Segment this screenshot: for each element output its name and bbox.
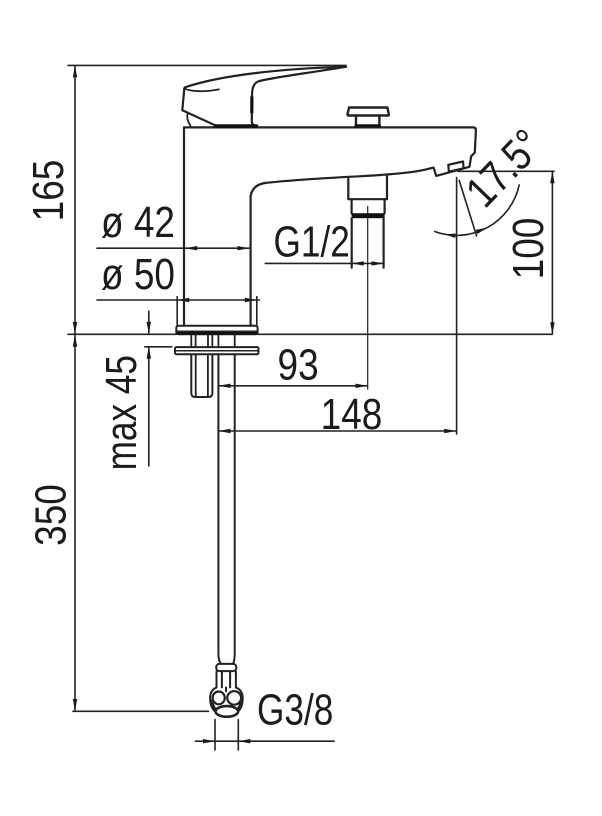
- svg-text:165: 165: [23, 160, 73, 222]
- washer mid line: [175, 350, 259, 352]
- flange bottom band: [177, 332, 257, 334]
- arrow up max45: [147, 347, 151, 359]
- handle base thick line: [216, 124, 257, 128]
- angle slanted ray 17.5: [459, 181, 476, 237]
- arc arrow left: [444, 233, 455, 237]
- arrow right 50: [245, 298, 257, 302]
- svg-text:148: 148: [321, 389, 383, 439]
- nut right lobe: [227, 691, 241, 705]
- arrow left G1/2: [352, 261, 364, 265]
- extension line bottom (hose end level): [73, 710, 209, 712]
- extension line outlet centre down to 93: [367, 207, 369, 390]
- flange outline: [176, 326, 257, 334]
- arc arrow right: [476, 228, 487, 234]
- dimension G1/2 leader line: [265, 262, 383, 264]
- aerator inner outlet: [448, 162, 463, 172]
- handle lever: [184, 67, 346, 126]
- angle vertical ray: [456, 178, 458, 435]
- threaded shank lines: [191, 335, 212, 347]
- dimension G3/8 line: [196, 740, 335, 742]
- arrow down 100: [550, 322, 554, 334]
- svg-text:ø 50: ø 50: [101, 249, 175, 299]
- washer plate: [175, 347, 259, 354]
- arrow left 93: [219, 384, 231, 388]
- arrow right 42: [237, 246, 249, 250]
- nut side wedge right: [239, 701, 242, 709]
- extension tick washer top: [145, 346, 172, 348]
- nut side wedge left: [211, 701, 215, 709]
- svg-text:350: 350: [25, 484, 75, 546]
- stud spline lines: [196, 354, 208, 396]
- hose collar: [216, 664, 236, 671]
- faucet body outline: [184, 127, 476, 325]
- arrow up 350: [73, 335, 77, 347]
- svg-text:G3/8: G3/8: [257, 686, 333, 735]
- mounting stud: [191, 354, 212, 397]
- dimension 50 leader line: [97, 299, 260, 301]
- arrow right G1/2: [372, 261, 384, 265]
- extension line deck left: [68, 333, 176, 335]
- dimension 148 line: [219, 430, 457, 432]
- arrow right 148: [444, 429, 456, 433]
- dimension max45 lower line: [148, 348, 150, 466]
- extension line deck right: [258, 333, 553, 335]
- flange mid line: [176, 330, 257, 332]
- shower outlet black band: [352, 213, 385, 218]
- handle front face: [182, 89, 216, 126]
- arrow left 148: [219, 429, 231, 433]
- dimension 42 leader line: [97, 247, 250, 249]
- arrow up 165: [73, 65, 77, 77]
- arrow right 93: [356, 384, 368, 388]
- nut opening ring: [216, 706, 239, 717]
- arrow right-pointing G3/8 left: [203, 739, 215, 743]
- svg-text:ø 42: ø 42: [101, 197, 175, 247]
- hose tube: [218, 354, 234, 663]
- nut connector line: [225, 688, 227, 692]
- diverter knob base band: [356, 124, 379, 127]
- svg-text:17.5°: 17.5°: [456, 119, 552, 216]
- dimension 350 line: [74, 336, 76, 711]
- nut left lobe: [213, 692, 225, 705]
- svg-text:G1/2: G1/2: [274, 218, 350, 267]
- shower outlet narrow block: [352, 199, 385, 213]
- svg-text:93: 93: [278, 339, 319, 389]
- hose crimp section: [217, 671, 236, 687]
- diverter knob neck: [356, 116, 379, 126]
- dimension 165 line: [74, 67, 76, 334]
- nut silhouette: [210, 688, 243, 711]
- extension line aerator to 100: [458, 170, 554, 172]
- extension line top (handle tip level): [68, 64, 346, 66]
- hose in deck gap: [218, 335, 234, 347]
- dimension 93 line: [219, 385, 368, 387]
- arrow down 165: [73, 322, 77, 334]
- arrow up 100: [550, 171, 554, 183]
- dimension max45 upper line: [148, 311, 150, 333]
- angle arc: [435, 185, 520, 235]
- handle top surface curve: [185, 89, 219, 91]
- arrow left-pointing G3/8 right: [238, 739, 250, 743]
- extension lines G3/8: [214, 720, 216, 751]
- shower outlet tube: [352, 218, 384, 267]
- svg-text:100: 100: [503, 218, 553, 280]
- diverter knob cap: [347, 108, 388, 116]
- dimension 100 line: [551, 172, 553, 333]
- handle neck shadow: [250, 97, 253, 112]
- svg-text:max 45: max 45: [97, 355, 146, 470]
- arrow down max45: [147, 322, 151, 334]
- shower outlet G1/2 upper block: [348, 175, 387, 199]
- arrow down 350: [73, 699, 77, 711]
- arrow left 42: [185, 246, 197, 250]
- escutcheon arc left: [187, 113, 190, 126]
- extension lines 50: [176, 297, 178, 326]
- arrow left 50: [177, 298, 189, 302]
